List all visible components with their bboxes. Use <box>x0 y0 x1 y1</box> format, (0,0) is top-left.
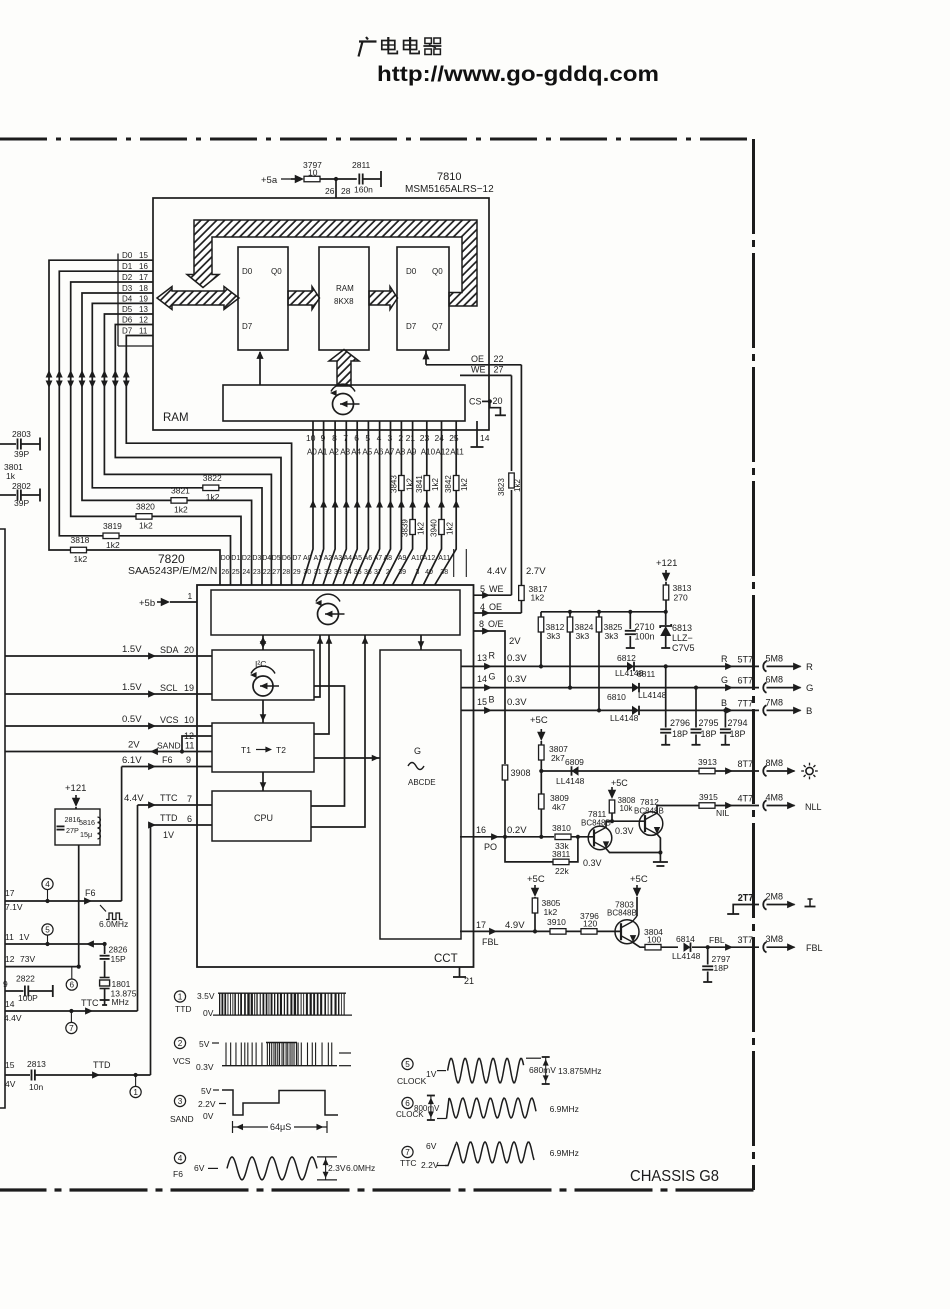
svg-text:F6: F6 <box>162 755 173 765</box>
circled 3 waveform SAND <box>170 1086 226 1124</box>
svg-text:12: 12 <box>5 954 15 964</box>
svg-text:6810: 6810 <box>607 692 626 702</box>
svg-text:10k: 10k <box>620 804 634 813</box>
svg-text:3819: 3819 <box>103 521 122 531</box>
hatched arrow RAM core to output latch <box>369 287 398 310</box>
wire emitters to ground <box>606 834 668 866</box>
svg-text:C7V5: C7V5 <box>672 643 695 653</box>
svg-text:160n: 160n <box>354 185 373 195</box>
svg-text:2822: 2822 <box>16 974 35 984</box>
svg-text:3811: 3811 <box>552 849 571 859</box>
svg-text:1: 1 <box>178 993 183 1002</box>
capacitor 2822 100P (pin 9) <box>3 974 53 1004</box>
resistor 3910 <box>547 917 566 934</box>
svg-text:1V: 1V <box>163 830 174 840</box>
svg-text:3820: 3820 <box>136 501 155 511</box>
svg-text:3839: 3839 <box>401 519 410 537</box>
svg-text:6T7: 6T7 <box>738 676 754 686</box>
svg-text:1k2: 1k2 <box>405 478 414 491</box>
svg-text:2813: 2813 <box>27 1059 46 1069</box>
svg-text:CPU: CPU <box>254 813 273 823</box>
svg-text:F6: F6 <box>85 888 96 898</box>
svg-text:2.7V: 2.7V <box>526 566 546 577</box>
wire data bus D3 (RAM pin 18 to 7820) <box>79 293 252 585</box>
svg-text:14: 14 <box>477 674 487 684</box>
svg-text:4: 4 <box>45 880 50 889</box>
svg-text:7.1V: 7.1V <box>5 902 23 912</box>
svg-text:4M8: 4M8 <box>766 793 784 803</box>
svg-text:1: 1 <box>133 1088 138 1097</box>
svg-text:5V: 5V <box>201 1086 212 1096</box>
svg-text:3.5V: 3.5V <box>197 991 215 1001</box>
svg-text:0.2V: 0.2V <box>507 825 527 836</box>
svg-text:39P: 39P <box>14 449 29 459</box>
svg-text:3841: 3841 <box>415 475 424 493</box>
svg-text:30: 30 <box>303 569 311 576</box>
resistor 3796 120 <box>580 911 599 934</box>
wire I2C-bus link <box>314 635 323 697</box>
wire pin 15 TTD row <box>5 825 151 1092</box>
svg-text:8: 8 <box>479 619 484 629</box>
resistor 3842 1k2 (address line A11) <box>444 475 469 493</box>
svg-text:A3: A3 <box>340 448 350 457</box>
wire 2811 to stub <box>363 171 381 187</box>
circled 7 <box>66 1011 77 1034</box>
capacitor 2797 18P <box>702 947 730 982</box>
svg-text:22: 22 <box>494 354 504 364</box>
svg-text:1k2: 1k2 <box>446 522 455 535</box>
waveform 5 clock sine <box>448 1057 602 1084</box>
header site name (Chinese) 广电电器 <box>359 37 442 57</box>
supply +121 (top right) <box>656 558 677 582</box>
svg-text:NLL: NLL <box>805 802 822 812</box>
svg-text:1k2: 1k2 <box>460 478 469 491</box>
svg-text:6V: 6V <box>426 1141 437 1151</box>
svg-text:7T7: 7T7 <box>738 698 754 708</box>
svg-text:D7: D7 <box>292 555 301 562</box>
svg-text:3910: 3910 <box>547 917 566 927</box>
I2C circle symbol <box>250 666 279 696</box>
svg-text:MSM5165ALRS−12: MSM5165ALRS−12 <box>405 184 494 195</box>
waveform 7 TTC sine <box>445 1142 579 1166</box>
svg-text:2k7: 2k7 <box>551 753 565 763</box>
svg-text:A6: A6 <box>364 555 373 562</box>
svg-text:6.9MHz: 6.9MHz <box>550 1148 579 1158</box>
7810 input latch box <box>238 247 288 350</box>
svg-text:D5: D5 <box>122 305 133 314</box>
wire bus-I2C double arrow <box>260 635 267 650</box>
svg-text:A2: A2 <box>329 448 339 457</box>
supply +5C (3807) <box>530 715 548 741</box>
chassis border bottom (dash-dot) <box>0 1188 754 1191</box>
hatched data-bus band with down arrow <box>187 220 477 306</box>
svg-text:MHz: MHz <box>112 997 129 1007</box>
svg-text:CCT: CCT <box>434 953 458 965</box>
svg-text:1V: 1V <box>19 932 30 942</box>
svg-text:LLZ−: LLZ− <box>672 633 693 643</box>
svg-text:SCL: SCL <box>160 683 178 693</box>
svg-text:2795: 2795 <box>699 718 719 728</box>
svg-text:10: 10 <box>306 433 316 443</box>
svg-text:A4: A4 <box>351 448 361 457</box>
svg-text:D0: D0 <box>242 267 253 276</box>
svg-text:A6: A6 <box>374 448 384 457</box>
svg-text:7: 7 <box>343 433 348 443</box>
svg-text:+121: +121 <box>656 558 677 569</box>
svg-text:5M8: 5M8 <box>766 653 784 663</box>
wire data bus D5 (RAM pin 13 to 7820) <box>101 314 271 585</box>
svg-text:+5a: +5a <box>261 175 278 186</box>
svg-text:3821: 3821 <box>171 485 190 495</box>
svg-text:31: 31 <box>314 569 322 576</box>
svg-text:7810: 7810 <box>437 171 461 183</box>
svg-text:1.5V: 1.5V <box>122 644 142 655</box>
resistor 3818 1k2 (data line) <box>71 535 90 564</box>
svg-text:32: 32 <box>324 569 332 576</box>
crystal ground <box>100 989 110 1006</box>
header URL text <box>377 62 659 86</box>
svg-text:5T7: 5T7 <box>738 654 754 664</box>
chassis border right (dash-dot) <box>752 139 755 1190</box>
waveform 2 VCS pulses <box>222 1043 351 1066</box>
wire G output pin 14 <box>461 672 759 692</box>
svg-text:17: 17 <box>476 920 486 930</box>
svg-text:O/E: O/E <box>488 619 504 629</box>
svg-text:D6: D6 <box>282 555 291 562</box>
connector 2T7/2M8 ground <box>727 892 815 915</box>
svg-text:6: 6 <box>405 1099 410 1108</box>
svg-text:7811: 7811 <box>588 809 607 819</box>
svg-text:24: 24 <box>242 569 250 576</box>
svg-text:1V: 1V <box>426 1069 437 1079</box>
svg-text:37: 37 <box>374 569 382 576</box>
wire FBL pin 17 <box>460 920 621 947</box>
svg-text:2.2V: 2.2V <box>421 1160 439 1170</box>
svg-text:6: 6 <box>70 981 75 990</box>
wire 3797 to node <box>320 178 357 180</box>
svg-text:0.3V: 0.3V <box>583 858 602 868</box>
supply +5b to pin 1 <box>139 591 197 609</box>
wire B output pin 15 <box>461 695 759 715</box>
svg-text:25: 25 <box>449 433 459 443</box>
svg-text:13: 13 <box>139 305 148 314</box>
svg-text:9: 9 <box>186 755 191 765</box>
svg-text:+5C: +5C <box>630 874 648 885</box>
svg-text:RAM: RAM <box>336 284 354 293</box>
waveform 4 F6 sine <box>227 1157 375 1180</box>
svg-text:A9: A9 <box>398 555 407 562</box>
svg-text:36: 36 <box>364 569 372 576</box>
svg-text:0.3V: 0.3V <box>615 826 634 836</box>
svg-text:17: 17 <box>139 273 148 282</box>
svg-text:3823: 3823 <box>497 478 506 496</box>
label CCT <box>434 953 458 965</box>
7820 I2C box <box>212 650 314 700</box>
svg-text:D0: D0 <box>221 555 230 562</box>
waveform 1 TTD pulse train <box>213 993 352 1015</box>
svg-text:8: 8 <box>332 433 337 443</box>
wire 3908 to PO node <box>504 780 506 837</box>
transistor 7811 BC848B <box>581 809 612 850</box>
svg-text:TTC: TTC <box>400 1158 417 1168</box>
svg-text:6V: 6V <box>194 1163 205 1173</box>
wire 7820 pin 8 O/E <box>474 619 522 764</box>
svg-text:20: 20 <box>184 645 194 655</box>
7820 CPU box <box>212 791 311 841</box>
svg-text:R: R <box>721 654 728 664</box>
wire data bus D0 (RAM pin 15 to 7820) <box>46 260 220 585</box>
7820 character generator box G/ABCDE <box>380 650 461 939</box>
wire bus-CPU link <box>311 635 368 827</box>
connector 3T7/3M8 FBL <box>725 934 822 953</box>
svg-text:D5: D5 <box>272 555 281 562</box>
connector 7T7/7M8 B <box>721 697 812 717</box>
svg-text:OE: OE <box>471 354 484 364</box>
label SAA5243P/E/M2/N <box>128 565 217 577</box>
svg-text:21: 21 <box>406 433 416 443</box>
wire 7811 collector node <box>606 819 645 836</box>
svg-text:10: 10 <box>184 715 194 725</box>
diode 6812 LL4148 <box>615 653 644 678</box>
svg-text:2803: 2803 <box>12 429 31 439</box>
svg-text:23: 23 <box>420 433 430 443</box>
svg-text:3915: 3915 <box>699 792 718 802</box>
svg-text:2.2V: 2.2V <box>198 1099 216 1109</box>
RAM data pin label table <box>118 251 153 346</box>
bus interface circle symbol <box>315 594 345 624</box>
resistor 3819 1k2 (data line) <box>103 521 122 550</box>
resistor 3841 1k2 (address line A10) <box>415 475 440 493</box>
svg-text:3913: 3913 <box>698 757 717 767</box>
waveform 6 clock sine <box>427 1096 579 1121</box>
circled 6 <box>66 967 77 991</box>
svg-text:2: 2 <box>386 569 390 576</box>
label CHASSIS G8 <box>630 1168 719 1185</box>
svg-text:D7: D7 <box>242 322 253 331</box>
7810 RAM core box <box>319 247 369 350</box>
svg-text:27: 27 <box>494 365 504 375</box>
svg-text:11: 11 <box>139 327 148 336</box>
svg-text:PO: PO <box>484 842 497 852</box>
svg-text:3M8: 3M8 <box>766 934 784 944</box>
svg-text:0.3V: 0.3V <box>507 697 527 708</box>
svg-text:D4: D4 <box>122 294 133 303</box>
chassis border top (dash-dot) <box>0 138 754 141</box>
svg-text:15P: 15P <box>111 954 126 964</box>
svg-text:18P: 18P <box>701 729 717 739</box>
circled 7 waveform TTC <box>400 1141 445 1170</box>
svg-text:CS: CS <box>469 397 482 407</box>
svg-text:D2: D2 <box>242 555 251 562</box>
svg-text:1k2: 1k2 <box>531 593 545 603</box>
svg-text:D7: D7 <box>406 322 417 331</box>
svg-text:270: 270 <box>674 593 688 603</box>
svg-text:16: 16 <box>139 262 148 271</box>
7810 address register box <box>223 385 465 421</box>
svg-text:10n: 10n <box>29 1082 43 1092</box>
tank circuit 2816 27P / 5816 15u <box>55 807 100 845</box>
wire pin 11 row <box>5 932 107 948</box>
svg-text:6M8: 6M8 <box>766 675 784 685</box>
svg-text:0.3V: 0.3V <box>196 1062 214 1072</box>
svg-text:23: 23 <box>253 569 261 576</box>
svg-text:14: 14 <box>480 433 490 443</box>
svg-text:4V: 4V <box>5 1079 16 1089</box>
supply +5C (3808) <box>611 778 628 788</box>
svg-text:A5: A5 <box>362 448 372 457</box>
address bus lines RAM to 7820 (A0-A12) <box>302 421 464 585</box>
svg-text:34: 34 <box>344 569 352 576</box>
svg-text:D0: D0 <box>122 251 133 260</box>
svg-text:17: 17 <box>5 888 15 898</box>
svg-text:28: 28 <box>282 569 290 576</box>
svg-text:14: 14 <box>5 999 15 1009</box>
svg-text:40: 40 <box>425 569 433 576</box>
svg-text:1k: 1k <box>6 471 16 481</box>
svg-text:3842: 3842 <box>444 475 453 493</box>
svg-text:1k2: 1k2 <box>139 520 153 530</box>
svg-text:Q0: Q0 <box>432 267 443 276</box>
diode 6809 LL4148 (points left) <box>539 757 699 786</box>
svg-text:D4: D4 <box>262 555 271 562</box>
svg-text:D2: D2 <box>122 273 133 282</box>
svg-text:800mV: 800mV <box>414 1104 440 1113</box>
circled 1 (TTD) <box>130 1075 141 1098</box>
svg-text:3908: 3908 <box>511 768 531 778</box>
svg-text:1k2: 1k2 <box>174 504 188 514</box>
svg-text:18P: 18P <box>714 963 729 973</box>
diode 6814 LL4148 <box>672 934 759 961</box>
circled 6 waveform CLOCK <box>396 1097 440 1119</box>
resistor 3915 <box>699 792 759 818</box>
resistor 3913 <box>698 757 759 774</box>
wire OE net to 7820 pin 4 <box>521 365 546 613</box>
connector 4T7/4M8 NLL <box>725 793 821 813</box>
svg-text:0.3V: 0.3V <box>507 674 527 685</box>
resistor 3797 10 <box>303 160 322 182</box>
circled 2 waveform VCS <box>173 1037 219 1072</box>
wire I2C-CPU link <box>311 686 345 806</box>
7820 pin name/number header <box>221 549 467 577</box>
svg-text:2T7: 2T7 <box>738 893 754 903</box>
resistor 3839 1k2 (address line A9) <box>401 519 426 537</box>
resistor 3809 4k7 <box>539 771 570 839</box>
svg-text:3: 3 <box>415 569 419 576</box>
circled 4 (F6) <box>42 878 53 901</box>
svg-text:TTD: TTD <box>160 813 178 823</box>
svg-text:100: 100 <box>647 935 661 945</box>
svg-text:A11: A11 <box>450 448 464 457</box>
svg-text:A7: A7 <box>374 555 383 562</box>
svg-text:+5C: +5C <box>527 874 545 885</box>
svg-text:A11: A11 <box>438 555 450 562</box>
svg-text:22k: 22k <box>555 866 569 876</box>
wire 7812 collector to NIL <box>657 806 699 814</box>
svg-text:T1: T1 <box>241 745 251 755</box>
svg-text:64μS: 64μS <box>270 1122 291 1132</box>
svg-text:13: 13 <box>477 653 487 663</box>
wire WE <box>460 365 512 376</box>
wire tank to pin12 row <box>78 845 80 967</box>
resistor 3940 1k2 (address line A12) <box>430 519 455 537</box>
svg-text:A9: A9 <box>407 448 417 457</box>
resistor 3820 1k2 (data line) <box>136 501 155 530</box>
svg-text:6.0MHz: 6.0MHz <box>99 919 128 929</box>
svg-text:29: 29 <box>293 569 301 576</box>
svg-text:2796: 2796 <box>670 718 690 728</box>
wire WE net to 7820 pin 5 <box>487 375 512 595</box>
svg-text:4.4V: 4.4V <box>4 1013 22 1023</box>
svg-text:7820: 7820 <box>158 552 185 566</box>
wire pin 17 F6 row <box>5 767 122 913</box>
svg-text:38: 38 <box>440 569 448 576</box>
address register circle symbol <box>330 384 360 414</box>
svg-text:100n: 100n <box>635 632 655 642</box>
label 7810 <box>437 171 461 183</box>
capacitor 2710 100n <box>625 612 655 648</box>
measure 64uS <box>233 1121 328 1134</box>
svg-text:3: 3 <box>178 1097 183 1106</box>
svg-text:12: 12 <box>184 731 194 741</box>
svg-text:+5C: +5C <box>611 778 628 788</box>
svg-text:D3: D3 <box>252 555 261 562</box>
svg-text:SAND: SAND <box>157 741 181 751</box>
wire PO pin 16 <box>460 825 554 852</box>
svg-text:10: 10 <box>308 168 318 178</box>
resistor 3822 1k2 (data line) <box>203 473 222 502</box>
7810 output latch box <box>397 247 449 350</box>
svg-text:NIL: NIL <box>716 808 730 818</box>
wire T1 to CPU arrow <box>260 772 267 791</box>
svg-text:A10: A10 <box>421 448 436 457</box>
svg-text:19: 19 <box>139 294 148 303</box>
svg-text:A7: A7 <box>385 448 395 457</box>
svg-text:18P: 18P <box>672 729 688 739</box>
svg-text:A4: A4 <box>344 555 353 562</box>
svg-text:15: 15 <box>477 697 487 707</box>
svg-text:2V: 2V <box>509 636 521 647</box>
waveform 3 SAND staircase <box>213 1090 338 1115</box>
svg-text:6811: 6811 <box>637 669 656 679</box>
wire data bus D2 (RAM pin 17 to 7820) <box>67 282 241 585</box>
resistor 3823 1k2 <box>497 473 522 496</box>
wire data bus D7 (RAM pin 11 to 7820) <box>123 336 292 586</box>
svg-text:CHASSIS G8: CHASSIS G8 <box>630 1168 719 1185</box>
svg-text:7: 7 <box>405 1148 410 1157</box>
resistor 3817 1k2 <box>519 584 548 603</box>
label RAM (inside 7810 box) <box>163 412 189 424</box>
svg-text:BC848B: BC848B <box>634 807 664 816</box>
wire T1-bus link <box>314 635 332 734</box>
svg-text:35: 35 <box>354 569 362 576</box>
svg-text:ABCDE: ABCDE <box>408 778 436 787</box>
arrow into input latch bottom <box>256 351 263 385</box>
resistor 3811 22k <box>503 835 602 876</box>
wire 7820 pin 5 WE <box>474 584 512 599</box>
svg-text:A8: A8 <box>384 555 393 562</box>
label resistor 3801 1k <box>4 462 23 481</box>
wire I2C to T1 arrow <box>260 700 267 723</box>
circled 4 waveform F6 <box>173 1152 218 1179</box>
svg-text:11: 11 <box>5 932 14 942</box>
svg-text:7: 7 <box>187 794 192 804</box>
capacitor 2795 18P <box>691 686 719 745</box>
svg-text:A1: A1 <box>318 448 328 457</box>
wire 7820 pin 4 OE <box>474 602 522 617</box>
svg-text:2811: 2811 <box>352 160 371 170</box>
svg-text:3818: 3818 <box>71 535 90 545</box>
svg-text:B: B <box>489 695 495 705</box>
